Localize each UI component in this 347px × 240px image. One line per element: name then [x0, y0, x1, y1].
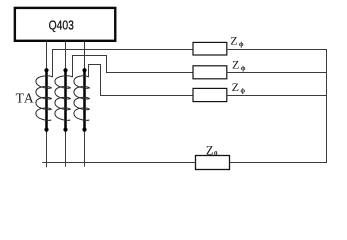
svg-text:Zф: Zф	[232, 58, 246, 72]
node dot B top	[63, 68, 67, 72]
wire phase A vertical	[46, 42, 48, 168]
resistor Z phase 3	[193, 88, 227, 101]
wire tap C to Z3	[89, 65, 194, 96]
resistor Z phase 2	[193, 66, 227, 79]
svg-text:Zф: Zф	[232, 80, 246, 94]
CT secondary coil C	[74, 76, 89, 121]
wire Z1 right	[227, 49, 327, 51]
wire Z2 right	[227, 72, 327, 74]
svg-text:Q403: Q403	[49, 17, 74, 32]
CT secondary coil B	[55, 76, 73, 121]
node dot A top	[44, 68, 48, 72]
svg-text:Zф: Zф	[230, 34, 244, 48]
wire phase B vertical	[65, 42, 67, 167]
wire neutral bottom	[42, 162, 195, 164]
svg-text:Z0: Z0	[206, 144, 218, 158]
wire right bus	[326, 49, 328, 163]
node dot C bottom	[82, 128, 86, 132]
wire Z3 right	[227, 95, 327, 97]
wire bottom right	[230, 162, 327, 164]
breaker Q403	[15, 8, 115, 41]
CT TA primary thick B	[64, 70, 67, 130]
resistor Z phase 1	[193, 42, 227, 55]
wire phase C vertical	[84, 42, 86, 167]
svg-text:ТА: ТА	[16, 90, 35, 105]
CT TA primary thick A	[45, 70, 48, 130]
node dot C top	[82, 68, 86, 72]
node dot B bottom	[63, 128, 67, 132]
wire tap A to Z1	[53, 50, 194, 78]
CT TA primary thick C	[83, 70, 86, 130]
node dot A bottom	[44, 128, 48, 132]
resistor Z0	[196, 156, 230, 170]
wire tap B to Z2	[73, 56, 194, 78]
CT secondary coil A	[36, 76, 53, 121]
